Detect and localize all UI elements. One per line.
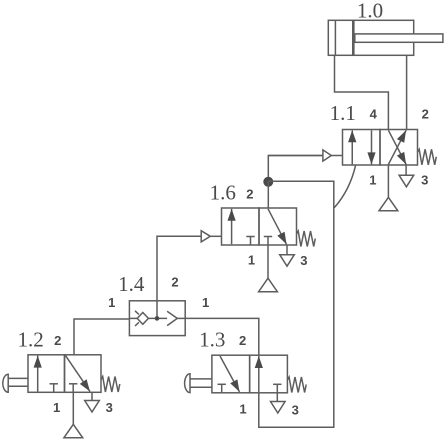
valve 1.1 right box cross arrow down <box>388 130 406 164</box>
shuttle valve 1.4 left inlet line <box>129 317 137 319</box>
port label 1 (valve 1.2) <box>53 400 60 415</box>
svg-text:1: 1 <box>108 295 115 310</box>
svg-text:2: 2 <box>171 275 178 290</box>
shuttle valve 1.4 seat whisker upper <box>135 311 139 315</box>
curved wire valve 1.1 to right trunk <box>334 165 356 208</box>
port label 2 (valve 1.2) <box>54 333 61 348</box>
svg-text:1.1: 1.1 <box>330 101 356 125</box>
valve 1.3 left box exhaust arrow <box>220 356 240 392</box>
valve 1.2 right box exhaust arrow <box>66 356 91 392</box>
valve 1.3 left box <box>212 355 250 393</box>
valve 1.3 left box blocked port T <box>218 384 226 393</box>
svg-text:1: 1 <box>248 252 255 267</box>
valve 1.3 plunger cap <box>185 374 190 393</box>
wire valve 1.2 port 2 to shuttle left input <box>74 319 129 355</box>
shuttle valve 1.4 center line <box>148 317 167 319</box>
valve 1.1 left box up arrow <box>348 130 356 164</box>
valve 1.6 port 1 supply line <box>267 245 269 278</box>
valve 1.2 left box <box>28 355 65 393</box>
valve 1.1 right box <box>380 130 418 166</box>
valve 1.1 supply triangle <box>379 197 398 211</box>
valve 1.6 left box <box>222 208 260 245</box>
valve 1.2 right box blocked port T <box>69 384 77 393</box>
valve 1.3 exhaust triangle <box>271 402 286 414</box>
svg-text:1: 1 <box>239 402 246 417</box>
port label 1 (valve 1.6) <box>248 252 255 267</box>
port label 1 (valve 1.1) <box>369 173 376 188</box>
svg-text:3: 3 <box>106 400 113 415</box>
valve 1.1 left box down arrow <box>367 130 375 164</box>
svg-text:3: 3 <box>300 253 307 268</box>
svg-text:1: 1 <box>369 173 376 188</box>
svg-text:1: 1 <box>202 295 209 310</box>
node junction <box>263 177 273 187</box>
cylinder 1.0 piston <box>352 20 355 55</box>
valve 1.2 plunger rod <box>8 378 28 386</box>
valve 1.6 right box exhaust arrow <box>268 209 287 245</box>
wire cylinder left port to valve 1.1 port 4 <box>335 55 389 129</box>
valve 1.1 right box cross arrow up <box>388 130 406 164</box>
label 1.0 <box>357 0 383 22</box>
valve 1.6 left box blocked port T <box>246 237 254 246</box>
port label 2 (valve 1.1) <box>422 107 429 122</box>
svg-text:1.6: 1.6 <box>210 181 236 205</box>
port label 1 left (valve 1.4) <box>108 295 115 310</box>
shuttle valve 1.4 seat whisker lower <box>135 322 139 326</box>
port label 1 right (valve 1.4) <box>202 295 209 310</box>
valve 1.3 plunger rod <box>190 379 212 387</box>
port label 4 (valve 1.1) <box>370 107 378 122</box>
valve 1.2 left box blocked port T <box>50 384 58 393</box>
svg-text:2: 2 <box>246 186 253 201</box>
label 1.2 <box>17 327 43 351</box>
port label 3 (valve 1.2) <box>106 400 113 415</box>
valve 1.6 return spring <box>297 231 316 247</box>
valve 1.1 exhaust triangle <box>399 175 414 187</box>
valve 1.6 supply triangle <box>259 278 278 292</box>
valve 1.2 port 3 stub <box>91 392 93 400</box>
cylinder 1.0 left cap line <box>334 20 336 55</box>
cylinder 1.0 piston rod <box>355 34 443 42</box>
wire node to valve 1.1 pilot <box>268 156 323 182</box>
valve 1.1 left box <box>343 130 381 166</box>
svg-text:2: 2 <box>239 333 246 348</box>
valve 1.6 port 3 stub <box>286 245 288 255</box>
svg-text:4: 4 <box>370 107 378 122</box>
valve 1.6 exhaust triangle <box>280 255 295 267</box>
valve 1.3 right box blocked port T <box>273 384 281 393</box>
valve 1.2 return spring <box>101 377 120 393</box>
shuttle valve 1.4 body <box>129 301 185 336</box>
label 1.3 <box>199 327 225 351</box>
valve 1.1 port 3 stub <box>405 165 407 175</box>
valve 1.1 return spring <box>418 149 437 165</box>
wire shuttle 1.4 output to valve 1.6 pilot <box>157 236 201 318</box>
valve 1.1 port 1 supply line <box>387 165 389 197</box>
svg-text:1.0: 1.0 <box>357 0 383 22</box>
wire shuttle right input to valve 1.3 port 2 <box>185 318 259 355</box>
valve 1.3 right box pass arrow <box>255 356 263 392</box>
shuttle valve 1.4 ball diamond <box>137 313 148 325</box>
valve 1.3 port 3 stub <box>276 393 278 402</box>
label 1.4 <box>118 272 145 296</box>
port label 3 (valve 1.1) <box>421 172 428 187</box>
valve 1.2 exhaust triangle <box>85 401 100 413</box>
valve 1.6 right box blocked port T <box>264 237 272 246</box>
svg-text:3: 3 <box>292 402 299 417</box>
valve 1.2 plunger cap <box>3 374 8 392</box>
valve 1.6 pilot triangle <box>201 231 221 242</box>
shuttle valve 1.4 output dot <box>155 316 160 321</box>
port label 3 (valve 1.3) <box>292 402 299 417</box>
svg-text:2: 2 <box>422 107 429 122</box>
cylinder 1.0 body <box>328 20 413 55</box>
label 1.6 <box>210 181 236 205</box>
valve 1.2 supply triangle <box>64 424 83 438</box>
svg-text:1: 1 <box>53 400 60 415</box>
port label 2 (valve 1.4) <box>171 275 178 290</box>
valve 1.2 right box <box>65 355 102 393</box>
wire node to valve 1.6 port 2 <box>267 181 269 208</box>
valve 1.6 left box up arrow <box>228 209 236 244</box>
shuttle valve 1.4 right inner line <box>177 317 185 319</box>
wire node to trunk and valve 1.3 port 1 <box>259 181 334 427</box>
valve 1.6 right box <box>259 208 297 245</box>
valve 1.3 right box <box>250 355 288 393</box>
valve 1.2 port 1 supply line <box>72 392 74 424</box>
port label 2 (valve 1.3) <box>239 333 246 348</box>
valve 1.1 pilot triangle <box>323 150 343 161</box>
valve 1.2 left box up arrow <box>34 356 42 392</box>
svg-text:1.3: 1.3 <box>199 327 225 351</box>
shuttle valve 1.4 right chevron <box>167 311 177 325</box>
valve 1.3 return spring <box>287 377 306 393</box>
valve 1.1 pilot line <box>268 155 323 157</box>
svg-text:3: 3 <box>421 172 428 187</box>
wire cylinder right port to valve 1.1 port 2 <box>406 55 408 129</box>
svg-text:1.4: 1.4 <box>118 272 145 296</box>
svg-text:2: 2 <box>54 333 61 348</box>
svg-text:1.2: 1.2 <box>17 327 43 351</box>
label 1.1 <box>330 101 356 125</box>
port label 3 (valve 1.6) <box>300 253 307 268</box>
port label 1 (valve 1.3) <box>239 402 246 417</box>
port label 2 (valve 1.6) <box>246 186 253 201</box>
